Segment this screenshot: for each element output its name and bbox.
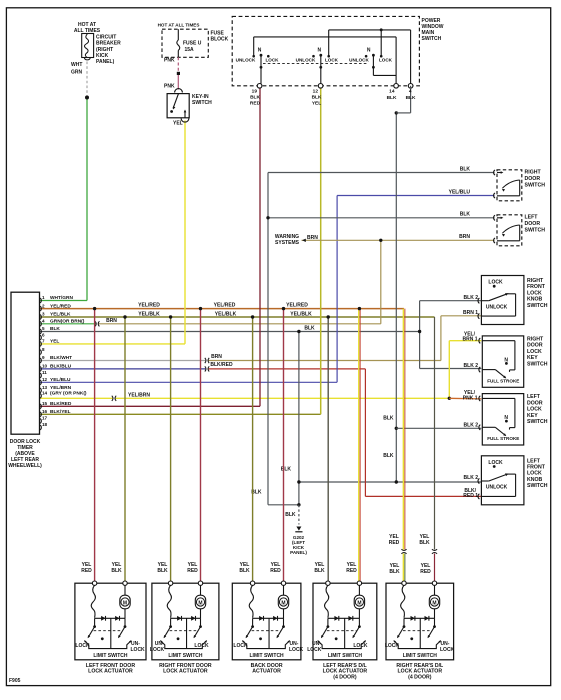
svg-text:15A: 15A [185,47,195,53]
svg-text:DOOR: DOOR [527,343,543,349]
svg-text:PANEL): PANEL) [290,550,307,555]
svg-text:LIMIT SWITCH: LIMIT SWITCH [250,653,285,659]
svg-text:BLK: BLK [239,568,250,574]
svg-text:LIMIT SWITCH: LIMIT SWITCH [93,653,128,659]
svg-text:(4 DOOR): (4 DOOR) [333,674,357,680]
svg-text:HOT AT ALL TIMES: HOT AT ALL TIMES [158,23,200,28]
svg-text:BRN: BRN [459,234,470,240]
svg-text:BLK/WHT: BLK/WHT [50,355,72,361]
svg-text:YEL/RED: YEL/RED [50,303,71,309]
svg-text:FRONT: FRONT [527,465,546,471]
svg-text:16: 16 [42,409,48,414]
svg-text:ACTUATOR: ACTUATOR [252,669,281,675]
svg-text:BLK: BLK [460,166,471,172]
svg-text:BLK: BLK [389,569,400,575]
svg-text:YEL/BLK: YEL/BLK [290,312,312,318]
svg-text:(GRY (OR PNK(): (GRY (OR PNK() [50,391,87,397]
svg-text:DOOR: DOOR [525,221,541,227]
svg-text:LOCK: LOCK [325,58,339,63]
svg-text:BLK/BLU: BLK/BLU [50,364,72,370]
svg-text:YEL/BLK: YEL/BLK [215,312,237,318]
svg-text:BLK: BLK [387,95,397,101]
svg-text:LOCK: LOCK [150,647,165,653]
svg-text:YEL/BRN: YEL/BRN [128,392,150,398]
svg-text:YEL/RED: YEL/RED [286,303,308,309]
svg-text:KNOB: KNOB [527,477,543,483]
svg-text:7: 7 [42,339,45,344]
svg-text:(4 DOOR): (4 DOOR) [408,674,432,680]
svg-text:PNK 1: PNK 1 [463,395,478,401]
svg-text:KEY: KEY [527,413,538,419]
svg-text:DOOR: DOOR [525,176,541,182]
svg-text:LOCK: LOCK [488,460,503,466]
svg-text:BRN 1: BRN 1 [463,310,478,316]
svg-text:BLK: BLK [250,95,260,101]
svg-text:YEL/BLU: YEL/BLU [50,377,71,383]
svg-text:BRN: BRN [307,235,318,241]
svg-text:BLK: BLK [383,416,394,422]
svg-text:RIGHT: RIGHT [527,337,544,343]
svg-text:14: 14 [42,391,48,396]
svg-text:N: N [367,48,371,54]
svg-text:8: 8 [42,347,45,352]
svg-text:YEL/BRN: YEL/BRN [50,385,72,391]
svg-text:BLK: BLK [111,568,122,574]
svg-text:13: 13 [42,385,48,390]
svg-text:1: 1 [42,295,45,300]
svg-text:BLK/RED: BLK/RED [210,362,233,368]
svg-text:N: N [317,48,321,54]
svg-text:LEFT: LEFT [527,394,541,400]
svg-text:SWITCH: SWITCH [527,303,548,309]
svg-text:RED: RED [270,568,281,574]
svg-text:UNLOCK: UNLOCK [486,485,508,491]
svg-text:4: 4 [409,89,412,95]
svg-text:LOCK: LOCK [233,643,248,649]
svg-text:GRN(OR BRN(): GRN(OR BRN() [50,319,85,325]
svg-text:LOCK: LOCK [379,58,393,63]
svg-text:BLK: BLK [157,568,168,574]
svg-text:SWITCH: SWITCH [527,483,548,489]
svg-text:F905: F905 [9,678,21,684]
svg-text:FUSE U: FUSE U [183,41,202,47]
svg-text:BREAKER: BREAKER [96,41,121,47]
svg-text:SWITCH: SWITCH [525,183,546,189]
svg-text:SWITCH: SWITCH [527,419,548,425]
svg-text:PNK: PNK [164,84,175,90]
svg-text:UNLOCK: UNLOCK [349,58,369,63]
svg-text:BLK: BLK [419,540,430,546]
svg-text:RED: RED [81,568,92,574]
svg-text:LOCK: LOCK [527,471,542,477]
svg-text:9: 9 [42,355,45,360]
svg-text:BLK: BLK [383,453,394,459]
svg-text:UNLOCK: UNLOCK [486,304,508,310]
svg-text:LOCK: LOCK [307,647,322,653]
svg-text:YEL/RED: YEL/RED [214,303,236,309]
svg-text:LOCK: LOCK [75,643,90,649]
svg-text:5: 5 [42,326,45,331]
svg-text:FULL STROKE: FULL STROKE [487,379,519,384]
svg-text:LIMIT SWITCH: LIMIT SWITCH [168,653,203,659]
svg-text:17: 17 [42,416,48,421]
svg-text:LOCK: LOCK [353,643,368,649]
svg-text:YEL/BLU: YEL/BLU [449,189,471,195]
svg-text:UNLOCK: UNLOCK [236,58,256,63]
svg-text:LOCK: LOCK [488,280,503,286]
svg-text:14: 14 [389,89,395,95]
svg-text:LOCK ACTUATOR: LOCK ACTUATOR [88,669,133,675]
svg-text:RED: RED [420,569,431,575]
svg-text:FULL STROKE: FULL STROKE [487,436,519,441]
svg-text:DOOR: DOOR [527,400,543,406]
svg-text:SWITCH: SWITCH [422,36,442,42]
svg-text:RED: RED [389,540,400,546]
svg-text:SWITCH: SWITCH [527,361,548,367]
svg-text:LOCK: LOCK [265,58,279,63]
svg-text:BLK: BLK [406,95,416,101]
svg-text:YEL/RED: YEL/RED [138,303,160,309]
svg-text:BLK: BLK [285,512,296,518]
svg-text:LOCK: LOCK [527,290,542,296]
svg-text:BRN: BRN [211,354,222,360]
svg-text:LEFT: LEFT [525,215,539,221]
svg-text:BRN: BRN [106,318,117,324]
svg-text:FRONT: FRONT [527,284,546,290]
svg-text:PANEL): PANEL) [96,59,115,65]
svg-text:BLK: BLK [460,212,471,218]
svg-text:12: 12 [42,377,48,382]
svg-text:BRN 1: BRN 1 [462,337,477,343]
svg-text:RED: RED [187,568,198,574]
svg-text:LIMIT SWITCH: LIMIT SWITCH [328,653,363,659]
svg-text:RIGHT: RIGHT [527,278,544,284]
svg-text:BLK: BLK [312,95,322,101]
svg-text:19: 19 [252,89,258,95]
svg-text:RED: RED [250,101,261,107]
svg-text:11: 11 [42,370,47,375]
svg-text:BLK 2: BLK 2 [464,423,479,429]
svg-text:LOCK: LOCK [385,643,400,649]
svg-text:LOCK: LOCK [131,647,146,653]
svg-text:WHT: WHT [71,62,82,68]
svg-text:LOCK: LOCK [527,407,542,413]
svg-text:RIGHT: RIGHT [525,170,542,176]
svg-text:PNK: PNK [164,58,175,64]
svg-text:KEY: KEY [527,355,538,361]
svg-text:M: M [357,600,361,606]
svg-text:18: 18 [42,422,48,427]
svg-text:LIMIT SWITCH: LIMIT SWITCH [403,653,438,659]
svg-text:M: M [281,600,285,606]
svg-text:SWITCH: SWITCH [192,100,212,106]
svg-text:12: 12 [313,89,319,95]
svg-text:RED 1: RED 1 [463,493,478,499]
svg-text:BLK 2: BLK 2 [464,475,479,481]
svg-text:LEFT: LEFT [527,458,541,464]
svg-text:SWITCH: SWITCH [525,228,546,234]
svg-text:M: M [198,600,202,606]
svg-text:LOCK: LOCK [440,647,455,653]
svg-text:YEL: YEL [312,101,321,107]
svg-text:LOCK: LOCK [289,647,304,653]
svg-text:LOCK ACTUATOR: LOCK ACTUATOR [163,669,208,675]
svg-text:BLK: BLK [304,326,315,332]
svg-text:BLK 2: BLK 2 [464,363,479,369]
svg-text:M: M [432,600,436,606]
svg-text:LOCK: LOCK [194,643,209,649]
svg-text:4: 4 [42,319,45,324]
svg-text:15: 15 [42,401,48,406]
svg-text:3: 3 [42,312,45,317]
svg-text:BLK/RED: BLK/RED [50,401,72,407]
svg-text:YEL: YEL [50,339,59,345]
svg-text:YEL/BLK: YEL/BLK [138,312,160,318]
svg-text:WHEELWELL): WHEELWELL) [8,463,42,469]
svg-text:M: M [123,600,127,606]
svg-text:BLK/YEL: BLK/YEL [50,409,71,415]
svg-text:N: N [258,48,262,54]
svg-text:RED: RED [346,568,357,574]
svg-text:BLK: BLK [281,467,292,473]
svg-text:BLK 2: BLK 2 [464,295,479,301]
svg-text:6: 6 [42,332,45,337]
svg-text:YEL: YEL [173,121,183,127]
svg-text:GRN: GRN [71,70,83,76]
svg-text:UNLOCK: UNLOCK [296,58,316,63]
svg-text:BLK: BLK [50,326,60,332]
svg-text:BLOCK: BLOCK [211,37,229,43]
svg-text:KNOB: KNOB [527,297,543,303]
svg-text:YEL/BLK: YEL/BLK [50,312,71,318]
svg-text:10: 10 [42,364,48,369]
svg-text:LOCK: LOCK [527,349,542,355]
svg-text:BLK: BLK [314,568,325,574]
svg-text:2: 2 [42,303,45,308]
svg-text:WHT/GRN: WHT/GRN [50,295,73,301]
svg-text:SYSTEMS: SYSTEMS [275,240,300,246]
